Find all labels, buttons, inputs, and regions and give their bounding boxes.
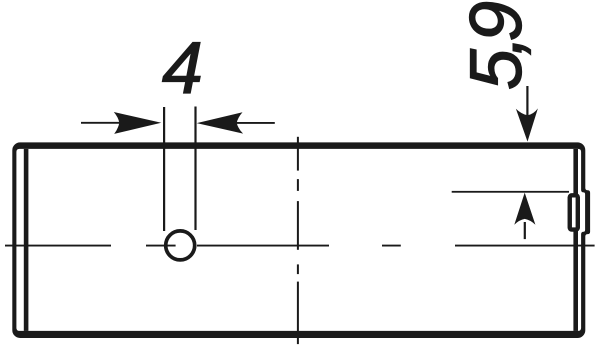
svg-text:5,9: 5,9 — [454, 2, 537, 90]
svg-text:4: 4 — [162, 26, 203, 109]
